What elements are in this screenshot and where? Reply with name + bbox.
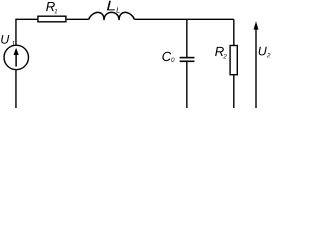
wire: top rail junction to capacitor C0 bbox=[186, 19, 188, 57]
label U1 bbox=[1, 35, 14, 45]
label R2 bbox=[215, 47, 227, 58]
label R1 bbox=[46, 2, 57, 13]
label LL bbox=[107, 1, 120, 13]
resistor R2 bbox=[230, 46, 237, 75]
voltage source U1 bbox=[4, 45, 29, 70]
wire: bottom lead of source U1 bbox=[15, 70, 17, 108]
wire: inductor to R2 corner (top rail) bbox=[135, 18, 234, 20]
wire: bottom lead of capacitor C0 bbox=[186, 62, 188, 108]
voltage source U1 arrow bbox=[14, 48, 19, 67]
wire: bottom lead of R2 bbox=[233, 75, 235, 108]
wire: R1 to inductor bbox=[67, 18, 89, 20]
capacitor C0 bbox=[180, 58, 195, 62]
wire: source top to resistor R1 bbox=[16, 19, 38, 44]
label U2 bbox=[259, 47, 271, 58]
voltage arrow U2 bbox=[254, 21, 259, 108]
inductor LL bbox=[89, 12, 135, 20]
label C0 bbox=[162, 52, 174, 62]
wire: top rail corner down to R2 bbox=[233, 19, 235, 45]
resistor R1 bbox=[38, 16, 66, 22]
